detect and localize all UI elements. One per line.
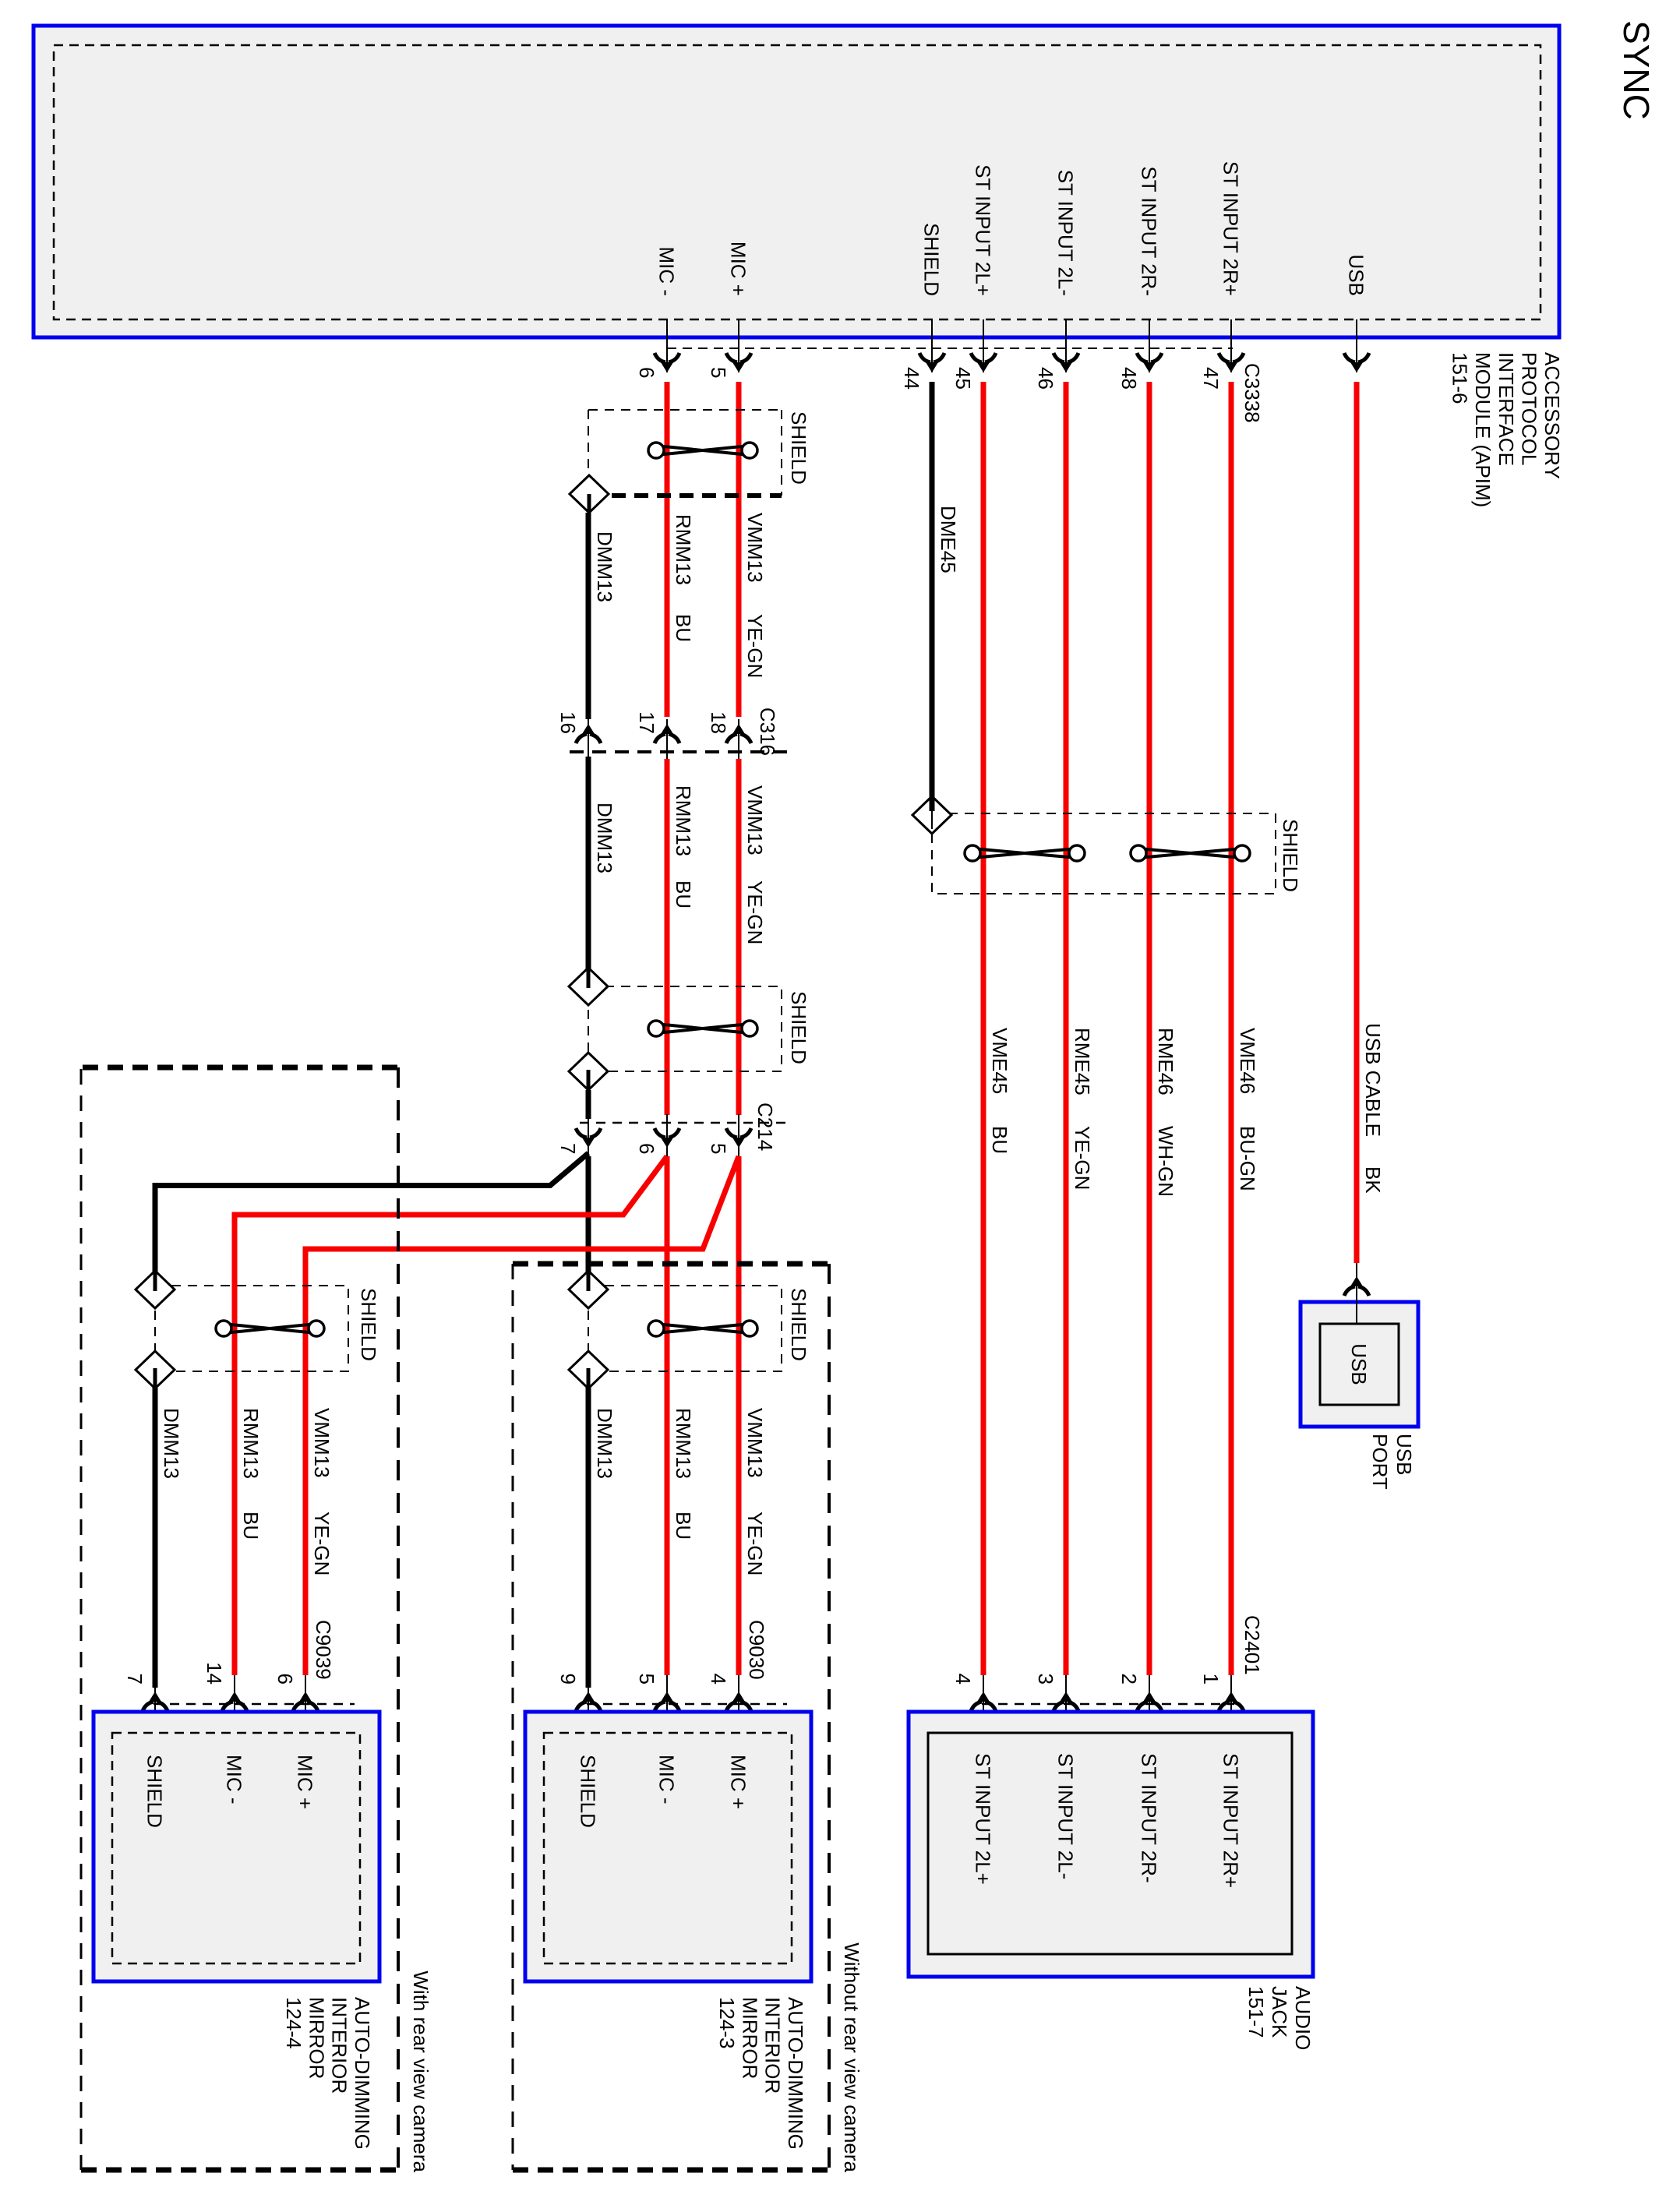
svg-text:5: 5 [707, 367, 730, 378]
svg-text:SYNC: SYNC [1616, 20, 1657, 120]
svg-text:Without rear view camera: Without rear view camera [840, 1942, 863, 2172]
svg-text:MIC +: MIC + [294, 1755, 317, 1809]
svg-text:46: 46 [1034, 367, 1057, 390]
svg-text:SHIELD: SHIELD [357, 1288, 380, 1361]
svg-text:DMM13: DMM13 [593, 531, 616, 602]
svg-text:INTERIOR: INTERIOR [328, 1997, 351, 2094]
svg-text:SHIELD: SHIELD [787, 411, 810, 485]
svg-text:VME46: VME46 [1236, 1028, 1259, 1094]
svg-text:MIRROR: MIRROR [305, 1997, 328, 2079]
svg-text:124-4: 124-4 [282, 1997, 305, 2049]
svg-text:ST INPUT 2L-: ST INPUT 2L- [1054, 170, 1078, 296]
svg-text:6: 6 [635, 367, 658, 378]
svg-text:RMM13: RMM13 [672, 514, 695, 585]
svg-text:18: 18 [707, 711, 730, 734]
svg-text:48: 48 [1117, 367, 1141, 390]
svg-text:BU: BU [672, 880, 695, 908]
svg-text:5: 5 [707, 1143, 730, 1154]
svg-text:6: 6 [635, 1143, 658, 1154]
svg-text:SHIELD: SHIELD [143, 1755, 167, 1828]
svg-text:ST INPUT 2L-: ST INPUT 2L- [1054, 1753, 1078, 1879]
svg-text:YE-GN: YE-GN [743, 614, 767, 678]
svg-text:ST INPUT 2L+: ST INPUT 2L+ [972, 1753, 995, 1885]
svg-text:BU: BU [672, 614, 695, 642]
svg-text:MIC -: MIC - [655, 246, 679, 296]
svg-text:JACK: JACK [1268, 1986, 1291, 2038]
svg-text:VME45: VME45 [988, 1028, 1011, 1094]
svg-text:YE-GN: YE-GN [743, 880, 767, 944]
svg-text:4: 4 [707, 1674, 730, 1685]
svg-text:USB CABLE: USB CABLE [1361, 1023, 1385, 1137]
svg-text:DMM13: DMM13 [593, 803, 616, 873]
svg-text:INTERFACE: INTERFACE [1495, 352, 1518, 466]
svg-text:DMM13: DMM13 [593, 1408, 616, 1479]
svg-text:7: 7 [556, 1143, 580, 1154]
svg-text:44: 44 [900, 367, 923, 390]
svg-text:VMM13: VMM13 [743, 785, 767, 856]
svg-text:AUTO-DIMMING: AUTO-DIMMING [351, 1997, 374, 2150]
svg-text:124-3: 124-3 [715, 1997, 739, 2049]
svg-text:17: 17 [635, 711, 658, 734]
svg-text:4: 4 [951, 1674, 975, 1685]
svg-text:MODULE (APIM): MODULE (APIM) [1471, 352, 1495, 507]
svg-text:C316: C316 [756, 707, 779, 756]
svg-text:1: 1 [1199, 1674, 1223, 1685]
svg-text:ST INPUT 2R-: ST INPUT 2R- [1138, 166, 1161, 296]
svg-text:ACCESSORY: ACCESSORY [1541, 352, 1564, 479]
svg-text:RMM13: RMM13 [672, 785, 695, 856]
svg-text:RMM13: RMM13 [239, 1408, 263, 1479]
svg-text:SHIELD: SHIELD [920, 223, 944, 296]
svg-text:VMM13: VMM13 [310, 1408, 334, 1478]
svg-text:ST INPUT 2R-: ST INPUT 2R- [1138, 1753, 1161, 1883]
svg-text:2: 2 [1117, 1674, 1141, 1685]
svg-text:45: 45 [951, 367, 975, 390]
svg-text:YE-GN: YE-GN [310, 1512, 334, 1575]
svg-text:MIC -: MIC - [655, 1755, 679, 1805]
svg-text:USB: USB [1347, 1343, 1371, 1385]
svg-text:RME45: RME45 [1071, 1028, 1094, 1095]
svg-text:RMM13: RMM13 [672, 1408, 695, 1479]
svg-text:C3338: C3338 [1241, 363, 1264, 423]
svg-text:DMM13: DMM13 [160, 1408, 183, 1479]
svg-text:SHIELD: SHIELD [577, 1755, 600, 1828]
svg-text:PORT: PORT [1368, 1434, 1392, 1490]
svg-text:BK: BK [1361, 1166, 1385, 1194]
svg-text:VMM13: VMM13 [743, 1408, 767, 1478]
svg-text:16: 16 [556, 711, 580, 734]
svg-text:3: 3 [1034, 1674, 1057, 1685]
svg-text:MIC -: MIC - [223, 1755, 246, 1805]
svg-text:USB: USB [1392, 1434, 1416, 1475]
svg-text:14: 14 [203, 1662, 226, 1685]
svg-text:SHIELD: SHIELD [787, 1288, 810, 1361]
svg-text:MIRROR: MIRROR [738, 1997, 761, 2079]
svg-text:VMM13: VMM13 [743, 513, 767, 583]
svg-text:BU: BU [988, 1126, 1011, 1154]
svg-text:C2401: C2401 [1241, 1615, 1264, 1675]
svg-text:MIC +: MIC + [727, 242, 750, 296]
svg-text:YE-GN: YE-GN [1071, 1126, 1094, 1190]
svg-text:C214: C214 [754, 1103, 777, 1151]
svg-text:BU: BU [239, 1512, 263, 1540]
svg-text:BU: BU [672, 1512, 695, 1540]
svg-text:BU-GN: BU-GN [1236, 1126, 1259, 1191]
svg-text:7: 7 [123, 1674, 146, 1685]
svg-text:ST INPUT 2R+: ST INPUT 2R+ [1219, 1753, 1243, 1888]
svg-text:ST INPUT 2L+: ST INPUT 2L+ [972, 164, 995, 296]
svg-text:SHIELD: SHIELD [1279, 819, 1302, 892]
svg-text:AUTO-DIMMING: AUTO-DIMMING [784, 1997, 807, 2150]
svg-text:USB: USB [1345, 255, 1368, 296]
svg-text:YE-GN: YE-GN [743, 1512, 767, 1575]
svg-text:151-6: 151-6 [1449, 352, 1472, 404]
svg-text:RME46: RME46 [1154, 1028, 1177, 1095]
svg-text:INTERIOR: INTERIOR [761, 1997, 785, 2094]
svg-text:DME45: DME45 [937, 506, 960, 573]
svg-text:C9030: C9030 [745, 1620, 768, 1680]
svg-text:With rear view camera: With rear view camera [409, 1970, 432, 2172]
svg-text:47: 47 [1199, 367, 1223, 390]
svg-text:MIC +: MIC + [727, 1755, 750, 1809]
svg-text:ST INPUT 2R+: ST INPUT 2R+ [1219, 161, 1243, 296]
svg-text:151-7: 151-7 [1244, 1986, 1268, 2038]
svg-text:WH-GN: WH-GN [1154, 1126, 1177, 1197]
svg-text:6: 6 [274, 1674, 297, 1685]
svg-text:AUDIO: AUDIO [1291, 1986, 1315, 2050]
svg-text:9: 9 [556, 1674, 580, 1685]
svg-text:SHIELD: SHIELD [787, 991, 810, 1064]
svg-text:5: 5 [635, 1674, 658, 1685]
svg-text:PROTOCOL: PROTOCOL [1517, 352, 1541, 465]
svg-text:C9039: C9039 [312, 1620, 335, 1680]
